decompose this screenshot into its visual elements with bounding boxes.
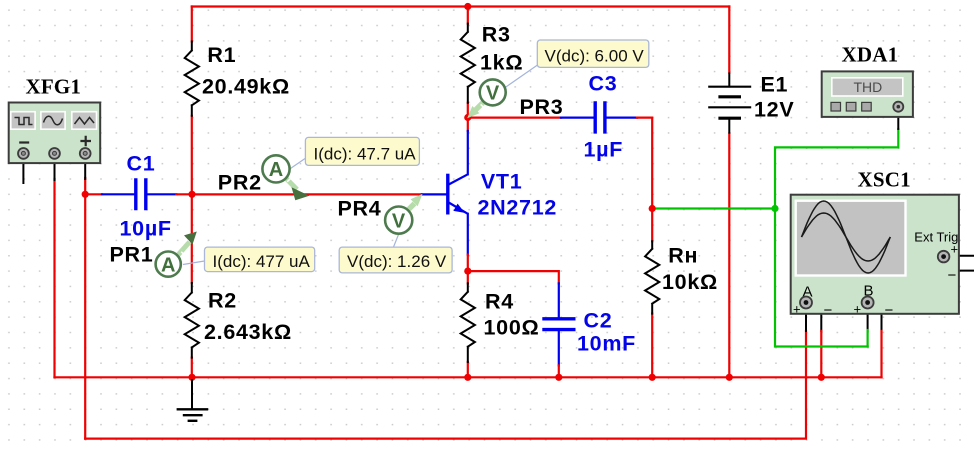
distortion analyzer XDA1 [822,71,913,117]
wire XFG minus terminal stub [22,156,24,183]
wire emitter node to R4 [467,271,469,283]
wire C1 left lead blue [102,193,134,195]
battery E1 [708,73,751,134]
node top bus at R3 [464,3,471,10]
svg-text:PR4: PR4 [338,196,382,220]
probe PR1 ammeter [156,232,205,277]
wire output node to Rn [651,209,653,242]
wire C2 top lead blue [558,283,560,317]
node ground bus R4 [464,374,471,381]
value label V(dc) 6.00 V [537,40,649,67]
node ground bus R2 [188,374,195,381]
node ground bus Rn [649,374,656,381]
function generator XFG1 [9,103,101,164]
capacitor C3 [595,101,605,133]
svg-text:C2: C2 [584,309,613,333]
transistor VT1 [448,174,468,215]
svg-text:A: A [161,254,175,276]
label VT1 type [478,169,558,219]
svg-text:E1: E1 [761,73,789,97]
svg-text:1µF: 1µF [584,138,624,162]
label C2 value [577,309,636,356]
svg-text:2N2712: 2N2712 [478,196,558,220]
wire XDA1 terminal black stub [897,111,899,129]
wire green junction down to scope B plus [775,209,868,347]
wire base node to R2 [191,194,193,283]
wire collector blue part [467,131,469,174]
node output [649,205,656,212]
wire scope A plus black stub [805,307,807,331]
svg-text:−: − [948,267,957,284]
label R3 value [480,23,523,75]
svg-text:C3: C3 [589,71,618,95]
wire emitter node to C2 top [468,271,559,283]
svg-text:XDA1: XDA1 [842,43,899,67]
wire scope B plus black stub [867,307,869,331]
ground [177,379,209,421]
value label I(dc) 47.7 uA [305,137,419,165]
wire C1 left red [85,193,102,195]
svg-text:R1: R1 [207,43,236,67]
label R4 value [484,290,540,340]
node green probe junction [771,205,778,212]
svg-text:+: + [951,242,959,257]
wire XFG common terminal stub [54,156,56,180]
svg-text:2.643kΩ: 2.643kΩ [204,320,292,344]
svg-text:−: − [824,302,833,319]
wire bottom input bus to scope A plus [85,331,806,439]
node input (C1 left junction) [82,191,89,198]
svg-text:R2: R2 [208,289,237,313]
svg-text:I(dc): 47.7 uA: I(dc): 47.7 uA [314,144,417,163]
svg-text:−: − [885,302,894,319]
wire scope B minus to ground bus end [872,303,882,332]
node ground bus E1 [726,374,733,381]
wire ground bus [55,376,882,378]
svg-text:10kΩ: 10kΩ [662,270,718,294]
svg-text:12V: 12V [754,98,794,122]
wire green output node to probe bus [652,207,775,209]
svg-text:Rн: Rн [668,244,698,268]
svg-text:20.49kΩ: 20.49kΩ [202,75,290,99]
wire ext trig minus [944,261,974,271]
capacitor C1 [136,178,146,210]
wire C1 right lead blue [147,193,176,195]
label E1 value [754,73,794,122]
wire top +12V bus [192,5,730,7]
wire XFG plus terminal stub [84,156,86,179]
wire R1 to base node [191,116,193,195]
svg-text:XFG1: XFG1 [26,75,82,99]
svg-text:A: A [269,159,283,181]
wire ext trig plus [948,255,974,257]
resistor Rn (load) [645,241,659,313]
wire base node to PR4 tip (red) [192,193,422,195]
wire C1 to base node red [176,193,192,195]
svg-text:XSC1: XSC1 [858,168,911,192]
wire R2 to ground bus [191,358,193,378]
label C1 value [120,152,172,241]
wire PR3 collector node to C3 (red part) [468,116,561,118]
wire emitter blue part [467,214,469,255]
svg-text:10µF: 10µF [120,217,172,241]
label Rn value [662,244,718,295]
wire C3 right lead blue [607,116,637,118]
node base divider junction [188,191,195,198]
svg-text:V: V [486,83,500,105]
node emitter [464,268,471,275]
svg-text:V(dc): 6.00 V: V(dc): 6.00 V [545,46,645,65]
svg-text:VT1: VT1 [481,169,523,193]
wire E1 bottom to ground bus [728,134,730,378]
wire C3 to output column [637,118,652,209]
svg-text:+: + [793,302,801,317]
svg-text:C1: C1 [127,152,156,176]
wire R3 bottom to collector node [467,103,469,118]
svg-text:R3: R3 [482,23,511,47]
svg-text:100Ω: 100Ω [484,316,540,340]
capacitor C2 [542,319,575,330]
wire E1 top from bus [728,7,730,73]
resistor R3 [461,24,475,103]
resistor R4 [461,283,475,362]
svg-text:I(dc): 477 uA: I(dc): 477 uA [213,252,311,271]
svg-text:+: + [854,302,862,317]
svg-text:V(dc): 1.26 V: V(dc): 1.26 V [347,252,447,271]
wire emitter red part to node [467,255,469,272]
label R1 value [202,43,290,98]
wire C2 bottom to ground bus [558,365,560,377]
svg-text:10mF: 10mF [577,332,636,356]
value label V(dc) 1.26 V [339,247,452,273]
resistor R1 [185,42,199,116]
resistor R2 [185,283,199,358]
wire R1 column top [191,7,193,42]
svg-text:R4: R4 [485,290,514,314]
wire collector node to transistor (red part) [467,118,469,132]
probe PR2 ammeter [262,155,309,200]
svg-text:1kΩ: 1kΩ [480,51,523,75]
wire XFG plus terminal down [84,178,86,439]
oscilloscope XSC1 [791,195,959,319]
probe PR3 voltmeter [467,65,537,118]
node ground bus scope A minus [818,374,825,381]
label R2 value [204,289,292,344]
node ground bus C2 [555,374,562,381]
svg-text:PR2: PR2 [218,171,262,195]
probe PR4 voltmeter [385,194,423,247]
svg-text:PR3: PR3 [520,95,564,119]
wire C3 left lead blue [561,116,593,118]
wire R3 column top [467,7,469,24]
node collector [464,114,471,121]
wire base blue part to transistor [422,193,446,195]
label C3 value [584,71,624,161]
wire R4 to ground bus [467,362,469,377]
wire Rn to ground bus [651,314,653,378]
wire C2 bottom lead blue [558,332,560,366]
wire XFG common terminal down [53,179,55,377]
svg-text:PR1: PR1 [110,243,154,267]
wire green junction up to XDA1 [775,129,898,209]
value label I(dc) 477 uA [205,247,315,272]
svg-text:V: V [392,210,406,232]
wire scope A minus to ground bus [810,303,821,332]
svg-text:THD: THD [854,79,883,95]
